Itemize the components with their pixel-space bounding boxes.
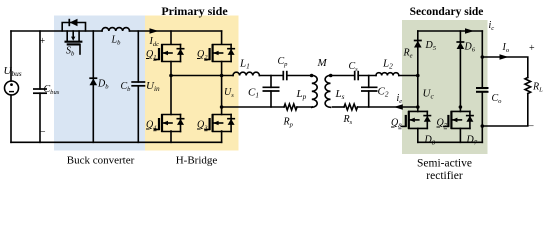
resistor RL [525,78,531,94]
semi-active rectifier region [402,20,488,154]
transistor Q1 [155,44,185,62]
svg-text:rectifier: rectifier [426,170,463,182]
transistor Q2 [205,44,235,62]
capacitor Cs [355,71,376,81]
capacitor Cbus [33,31,47,142]
switch Sb body-diode loop [62,19,85,31]
current ie arrow [394,104,403,109]
H-bridge region [145,16,239,151]
node B dot bottom [220,105,224,109]
wire Q8 source [417,128,419,142]
svg-text:Primary side: Primary side [161,4,228,18]
wire L2 to rectifier [399,75,418,77]
svg-text:Secondary side: Secondary side [410,6,484,18]
transistor Q3 [205,114,235,132]
capacitor C2 [361,76,378,108]
current Idc arrow [150,28,159,33]
inductor L2 [376,73,399,76]
wire after L1 [259,75,283,77]
diode Db [92,31,94,142]
capacitor Co [476,87,489,93]
diode D5 [414,40,422,42]
node left leg lower dot [416,105,420,109]
node right leg lower dot [459,105,463,109]
inductor Lp [312,75,317,107]
resistor Rs [333,106,345,108]
transistor Q4 [155,114,185,132]
node B dot top [220,74,224,78]
node secondary input dot [416,74,420,78]
node A dot [169,74,173,78]
svg-text:Buck converter: Buck converter [67,155,135,167]
current ic arrow [465,28,474,33]
wire Q7 source [459,128,461,142]
wire top rail [11,30,222,32]
node output plus dot [481,55,485,59]
svg-text:Semi-active: Semi-active [417,158,472,170]
wire Ls top [331,75,355,77]
node output minus dot [481,124,485,128]
wire bottom rail [11,141,222,143]
svg-text:H-Bridge: H-Bridge [176,155,218,167]
inductor L1 [233,72,259,75]
buck converter region [54,16,145,151]
wire H-bridge left leg [170,31,172,142]
svg-text:+: + [529,43,535,54]
wire left source branch [10,31,12,142]
resistor Rp [222,106,284,108]
svg-text:–: – [39,126,46,137]
transistor Q8 [401,111,431,129]
wire output right vertical [481,31,483,142]
inductor Ls [325,75,330,107]
inductor Lb [102,28,130,31]
switch Sb MOSFET [65,31,83,54]
wire bridge mid output [171,75,233,77]
capacitor Cb [131,31,145,142]
source Ubus [5,81,19,95]
wire H-bridge right leg [221,31,223,142]
svg-text:M: M [317,57,328,69]
svg-text:–: – [528,121,535,132]
capacitor C1 [263,76,280,108]
wire load loop [482,57,528,126]
capacitor Cp [283,71,311,81]
wire rectifier bottom rail [418,141,483,143]
wire rectifier top rail [418,30,483,32]
wire rectifier left leg [417,31,419,112]
svg-text:+: + [40,36,46,47]
current Io arrow [500,54,509,59]
diode D6 [456,41,464,43]
transistor Q7 [444,111,474,129]
wire rectifier right leg [459,31,461,112]
